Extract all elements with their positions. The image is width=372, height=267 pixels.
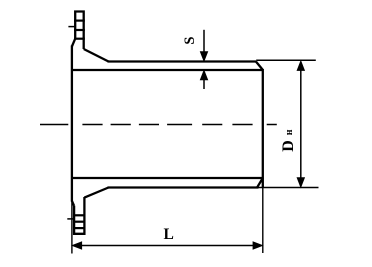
bottom end bevel	[257, 178, 263, 187]
top collar thread line 2	[74, 29, 85, 31]
dimension S lower arrowhead (points up)	[200, 70, 207, 80]
svg-text:н: н	[284, 129, 295, 135]
svg-text:S: S	[182, 37, 198, 45]
bottom collar left slant to flange face	[72, 201, 74, 206]
dimension Dn top arrowhead (points up)	[297, 61, 304, 71]
centerline dash 1	[40, 124, 68, 126]
right extension line for L	[262, 188, 264, 254]
dimension S leader line upper	[203, 30, 205, 54]
svg-text:D: D	[280, 140, 297, 152]
bottom collar thread line 1	[73, 214, 86, 216]
centerline dash 3	[111, 124, 131, 126]
centerline dash 5	[167, 124, 192, 126]
centerline dash 2	[82, 124, 102, 126]
top collar thread line 3	[74, 38, 85, 40]
bottom collar left tick	[67, 218, 74, 220]
bottom collar thread line 3	[73, 227, 86, 229]
top collar left slant to flange face	[72, 39, 75, 47]
bottom collar thread line 2	[73, 221, 86, 223]
pipe outer top line	[108, 60, 257, 62]
dimension S leader line lower	[203, 78, 205, 89]
dimension Dn bottom arrowhead (points down)	[297, 178, 304, 188]
top collar left tick	[68, 26, 75, 28]
centerline dash 7	[232, 124, 252, 126]
svg-text:L: L	[164, 226, 174, 243]
pipe outer bottom line	[108, 186, 259, 188]
bottom collar outline	[74, 197, 84, 234]
top diagonal neck to pipe	[84, 49, 109, 62]
bottom extension line for Dn	[259, 187, 319, 189]
top collar thread line 1	[74, 20, 85, 22]
dimension Dn line	[300, 69, 302, 181]
top end bevel	[256, 62, 263, 71]
dimension L right arrowhead (points right)	[253, 242, 263, 249]
pipe end face	[262, 69, 264, 188]
bottom diagonal neck to pipe	[84, 188, 108, 198]
left extension line for L	[71, 202, 73, 254]
centerline dash 4	[139, 124, 159, 126]
dimension S upper arrowhead (points down)	[200, 52, 207, 62]
centerline dash 8	[267, 124, 277, 126]
top collar outline	[75, 12, 84, 50]
pipe inner bottom line	[72, 177, 263, 179]
dimension L left arrowhead (points left)	[72, 242, 82, 249]
top extension line for Dn	[256, 59, 316, 61]
dimension L line	[78, 245, 256, 247]
flange face (left end face)	[71, 46, 73, 202]
centerline dash 6	[202, 124, 222, 126]
pipe inner top line	[72, 69, 263, 71]
